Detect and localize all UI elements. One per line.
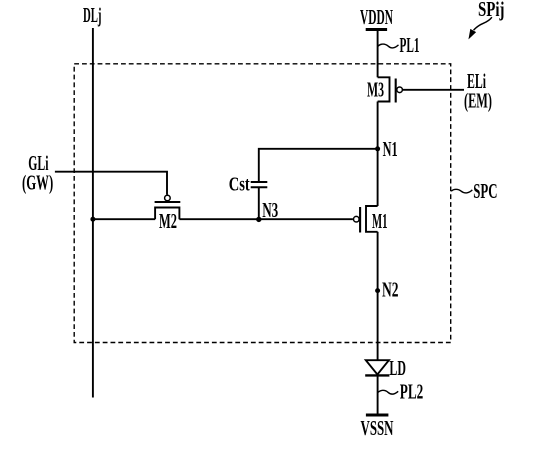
- svg-text:VDDN: VDDN: [360, 5, 393, 29]
- transistor M2: [155, 195, 181, 233]
- diode LD: [365, 356, 406, 380]
- net GLi (GW) label: [22, 151, 53, 195]
- svg-text:M1: M1: [372, 209, 388, 233]
- svg-text:SPC: SPC: [473, 179, 497, 203]
- svg-text:LD: LD: [389, 356, 406, 380]
- wire DLj data line: [92, 28, 94, 398]
- net ELi (EM) label: [464, 69, 492, 113]
- svg-text:M2: M2: [159, 209, 177, 233]
- label PL1 with leader squiggle: [378, 33, 420, 57]
- node N1: [375, 137, 398, 161]
- wire N2 to LD anode: [377, 291, 379, 361]
- capacitor Cst: [229, 174, 268, 219]
- wire N1 to Cst top plate: [259, 149, 378, 182]
- svg-text:PL1: PL1: [400, 33, 420, 57]
- wire N1 to M1 drain: [377, 149, 379, 206]
- svg-text:PL2: PL2: [400, 380, 424, 404]
- wire M1 source to node N2: [377, 232, 379, 291]
- svg-text:(EM): (EM): [464, 89, 492, 113]
- node N3: [256, 198, 278, 222]
- dashed box SPC pixel-circuit boundary: [74, 64, 451, 343]
- node N2: [375, 278, 398, 302]
- transistor M1: [354, 206, 388, 233]
- svg-text:VSSN: VSSN: [361, 416, 394, 440]
- wire LD cathode to VSSN: [377, 375, 379, 415]
- wire DLj to M2 source: [93, 218, 155, 220]
- wire M2 drain through N3 to M1 gate: [179, 218, 353, 220]
- transistor M3: [367, 77, 402, 102]
- svg-text:N2: N2: [382, 278, 399, 302]
- svg-text:N1: N1: [383, 137, 398, 161]
- svg-text:M3: M3: [367, 78, 384, 102]
- power VSSN terminal: [361, 415, 394, 440]
- arrow leader to SPij: [469, 17, 492, 38]
- wire M3 source to node N1: [377, 102, 379, 149]
- svg-text:Cst: Cst: [229, 174, 250, 195]
- wire M3 gate to ELi: [403, 89, 464, 91]
- wire VDDN lead to M3 drain: [377, 29, 379, 77]
- wire GLi to M2 gate: [55, 172, 167, 195]
- label SPC with leader squiggle: [451, 179, 497, 203]
- junction DLj / M2 source: [90, 217, 95, 222]
- svg-text:(GW): (GW): [22, 171, 53, 195]
- svg-text:DLj: DLj: [83, 3, 102, 27]
- power VDDN terminal: [360, 5, 393, 30]
- label PL2 with leader squiggle: [378, 380, 423, 404]
- svg-text:N3: N3: [262, 198, 278, 222]
